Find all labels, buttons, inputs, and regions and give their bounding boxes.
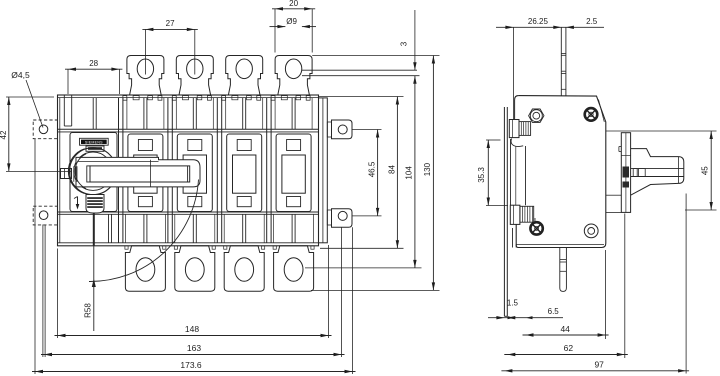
dimension 163 bracket hole spacing bbox=[42, 225, 44, 358]
svg-text:46.5: 46.5 bbox=[368, 161, 377, 177]
dimension 46.5 bracket hole spacing bbox=[353, 129, 382, 131]
handle swing arc bbox=[89, 180, 199, 282]
top actuator rod bbox=[560, 28, 562, 96]
svg-text:130: 130 bbox=[423, 162, 432, 176]
svg-text:173.6: 173.6 bbox=[180, 360, 202, 370]
upper right mounting bracket bbox=[327, 122, 331, 137]
svg-text:44: 44 bbox=[560, 324, 570, 334]
chamfer inner line bbox=[599, 100, 605, 123]
dimension 42 handle axis offset bbox=[6, 96, 54, 98]
rotary knob of switch mechanism bbox=[70, 148, 117, 195]
svg-text:1.5: 1.5 bbox=[507, 299, 519, 308]
right flange strip of body bbox=[319, 98, 328, 243]
svg-text:97: 97 bbox=[594, 360, 604, 370]
pole 3 front panel with windows bbox=[227, 134, 262, 212]
dimension 173.6 overall width bbox=[34, 139, 36, 374]
svg-text:45: 45 bbox=[700, 166, 709, 175]
dimension 130 overall height bbox=[312, 55, 439, 57]
svg-text:Ø4,5: Ø4,5 bbox=[11, 70, 30, 80]
svg-text:6.5: 6.5 bbox=[548, 307, 560, 316]
dimension 27 lug pitch bbox=[144, 29, 146, 74]
dimension R58 handle radius bbox=[93, 214, 95, 246]
dimensions 26.25 and 2.5 bbox=[512, 27, 514, 119]
ON/OFF direction arrow symbol bbox=[77, 197, 79, 208]
svg-text:28: 28 bbox=[89, 59, 98, 68]
svg-text:Ø9: Ø9 bbox=[286, 17, 297, 26]
svg-text:3: 3 bbox=[400, 41, 409, 46]
side view body outline bbox=[516, 96, 606, 248]
dimension 28 bbox=[67, 69, 69, 94]
dimension 84 body height bbox=[319, 96, 404, 98]
dimension 97 overall depth bbox=[685, 194, 687, 374]
top terminal lug 2 with hole bbox=[176, 56, 213, 96]
lower internal band line bbox=[58, 211, 319, 213]
dimension 35.3 terminal spacing bbox=[486, 139, 501, 141]
svg-text:27: 27 bbox=[166, 19, 175, 28]
lower left mounting bracket bbox=[33, 206, 57, 225]
padlock locking tab bbox=[86, 195, 104, 214]
cross-recess screw upper right bbox=[585, 108, 598, 121]
svg-text:163: 163 bbox=[187, 343, 201, 353]
bottom terminal lug 4 with hole bbox=[274, 246, 314, 291]
dimension 20 lug width bbox=[274, 9, 276, 53]
screw lower right bbox=[584, 224, 598, 238]
svg-text:SIEMENS: SIEMENS bbox=[85, 141, 103, 145]
dimensions 1.5 and 6.5 bbox=[488, 317, 563, 319]
svg-text:R58: R58 bbox=[83, 303, 92, 318]
top terminal lug 1 with hole bbox=[127, 56, 164, 96]
dimension 148 bbox=[57, 249, 59, 339]
top band slot lines under lugs bbox=[143, 98, 145, 130]
dimension 104 bbox=[305, 267, 422, 269]
bottom terminal lug 1 with hole bbox=[125, 246, 165, 291]
side view mounting plate bbox=[503, 107, 505, 316]
dimension 3 terminal thickness bbox=[302, 69, 417, 71]
svg-text:62: 62 bbox=[564, 343, 574, 353]
handle grip side profile bbox=[631, 149, 684, 196]
bottom band slot lines above lugs bbox=[143, 214, 145, 243]
pole boundary double lines bbox=[118, 98, 120, 243]
svg-text:104: 104 bbox=[405, 166, 414, 180]
bottom terminal lug 3 with hole bbox=[224, 246, 264, 291]
top terminal lug 3 with hole bbox=[226, 56, 263, 96]
pole 4 front panel with windows bbox=[276, 134, 311, 212]
mechanism section panel bbox=[70, 133, 117, 212]
upper internal band line bbox=[58, 128, 319, 130]
cross-recess screw lower left bbox=[530, 222, 542, 234]
svg-text:26.25: 26.25 bbox=[528, 17, 549, 26]
hexagon terminal screw head bbox=[529, 109, 544, 122]
DIN rail release rod bbox=[559, 248, 561, 289]
handle mounting flange bbox=[621, 133, 630, 213]
handle lever bar bbox=[76, 157, 200, 187]
bottom terminal lug 2 with hole bbox=[175, 246, 215, 291]
upper left mounting bracket bbox=[33, 120, 57, 139]
svg-text:20: 20 bbox=[289, 0, 298, 8]
svg-text:148: 148 bbox=[185, 324, 199, 334]
pole 1 front panel with windows bbox=[128, 134, 163, 212]
dimension 45 handle height bbox=[606, 130, 717, 132]
dimension 62 bbox=[624, 214, 626, 359]
pole 2 front panel with windows bbox=[177, 134, 212, 212]
upper box terminal with clamping screw bbox=[509, 120, 519, 138]
lower box terminal with clamping screw bbox=[510, 205, 520, 224]
slot in top edge near left bbox=[63, 95, 65, 126]
small notches at bottom edge bbox=[125, 246, 128, 249]
front view body outline bbox=[58, 95, 319, 246]
lower right mounting bracket bbox=[327, 210, 331, 225]
svg-text:2.5: 2.5 bbox=[586, 17, 598, 26]
svg-text:35.3: 35.3 bbox=[477, 167, 486, 183]
top terminal lug 4 with hole bbox=[275, 56, 312, 96]
small notches along top edge bbox=[158, 96, 162, 101]
dimension diameter 9 lug hole bbox=[270, 26, 286, 28]
dimension 44 bbox=[605, 250, 607, 339]
SIEMENS label bbox=[80, 138, 109, 145]
svg-text:84: 84 bbox=[387, 165, 396, 174]
svg-text:42: 42 bbox=[0, 130, 8, 139]
